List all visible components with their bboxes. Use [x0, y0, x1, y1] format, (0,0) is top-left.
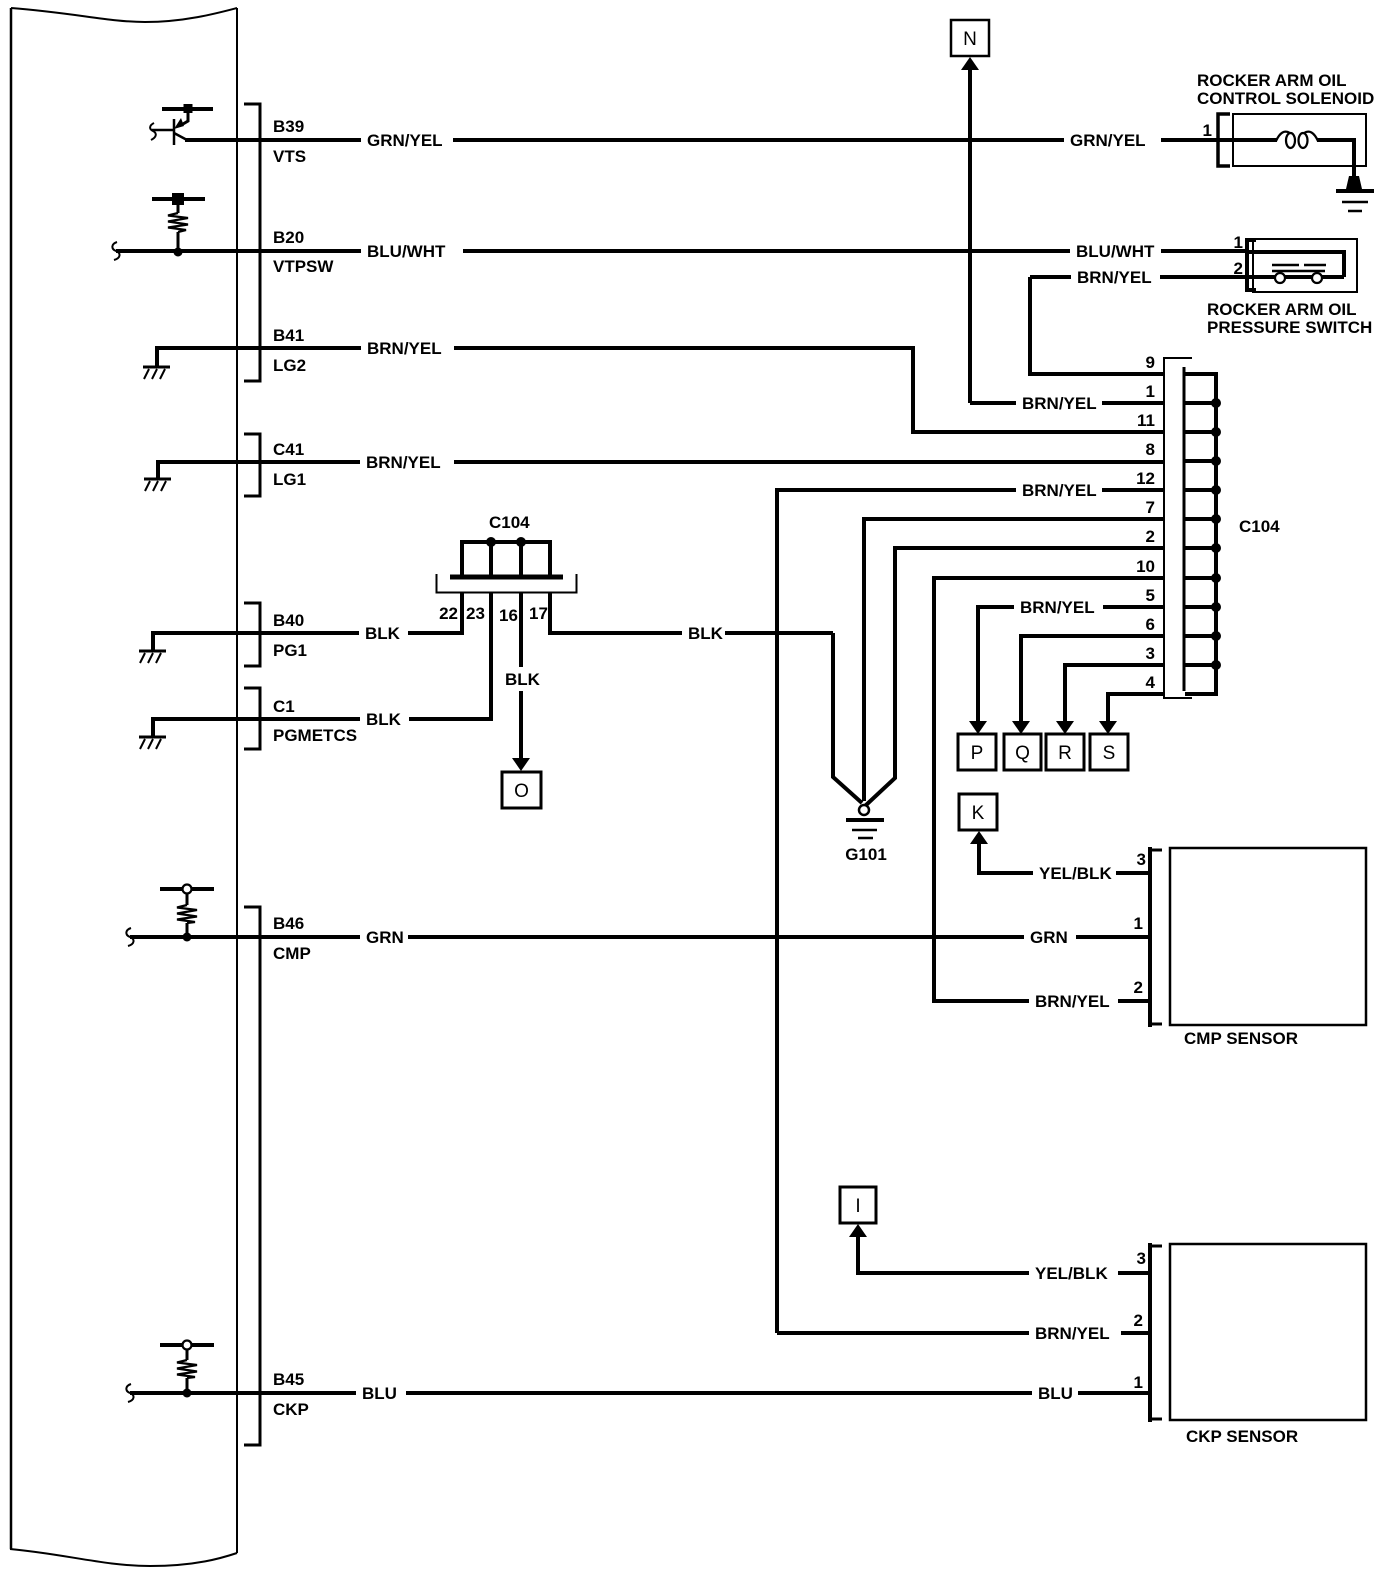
svg-text:1: 1	[1134, 914, 1143, 933]
resistor R bottom lead	[186, 923, 189, 937]
pin 3 right stub	[1185, 663, 1218, 667]
pin 11 right stub	[1185, 430, 1218, 434]
wire from C104 pin 1 up to terminal N	[968, 68, 972, 403]
wire C104 pin 3 to terminal R	[1065, 665, 1164, 722]
svg-text:C104: C104	[1239, 517, 1280, 536]
pin 5 right stub	[1185, 605, 1218, 609]
svg-text:BRN/YEL: BRN/YEL	[1077, 268, 1152, 287]
resistor R (VTPSW pull-up) top rail	[152, 197, 205, 201]
connector bracket C1	[244, 688, 260, 749]
transistor Q collector square terminal	[184, 104, 193, 113]
svg-text:6: 6	[1146, 615, 1155, 634]
svg-text:12: 12	[1136, 469, 1155, 488]
rocker arm oil pressure switch connector bracket	[1247, 240, 1256, 290]
solenoid earth ground bar 3	[1348, 210, 1362, 213]
resistor R top lead	[186, 1350, 189, 1360]
wire B46 GRN to CMP sensor pin 1	[130, 935, 360, 939]
svg-text:BRN/YEL: BRN/YEL	[1020, 598, 1095, 617]
pressure switch actuator dashes	[1272, 264, 1299, 267]
wire C104 pin 23 upper stub	[489, 542, 493, 575]
terminal box N	[951, 20, 989, 56]
wire YEL/BLK from CKP pin 3 to terminal I	[858, 1235, 1029, 1273]
svg-text:1: 1	[1234, 233, 1243, 252]
wire-break squiggle B20	[112, 242, 119, 260]
resistor R bottom lead	[186, 1378, 189, 1393]
connector C104 left body shell	[437, 574, 577, 593]
wire C104 pin 9 from pressure switch pin 2	[1030, 277, 1164, 374]
ground symbol C41 bar	[144, 478, 171, 481]
svg-text:BLU/WHT: BLU/WHT	[367, 242, 446, 261]
resistor R (CMP pull-up) top rail	[160, 887, 182, 891]
terminal box P	[958, 734, 996, 770]
wire C104 pin 4 to terminal S	[1108, 694, 1164, 722]
pin 1 right stub	[1185, 401, 1218, 405]
svg-text:LG1: LG1	[273, 470, 306, 489]
pin 2 right stub	[1185, 546, 1218, 550]
ground G101 terminal circle	[859, 805, 869, 815]
pressure switch pin 2 internal wire	[1249, 275, 1344, 279]
svg-text:BRN/YEL: BRN/YEL	[1022, 481, 1097, 500]
pressure switch pin 1 internal wire	[1249, 252, 1344, 277]
svg-text:BLU: BLU	[362, 1384, 397, 1403]
connector bracket B39/B20/B41	[244, 104, 260, 381]
wire C104 pin 17 lower stub BLK to G101	[550, 593, 682, 633]
wire BLK from C104 pin17 down to G101	[833, 633, 862, 803]
wire C104 pin 23 lower stub to C1	[489, 593, 493, 719]
svg-text:BLK: BLK	[366, 710, 402, 729]
solenoid L1 internal wire left	[1233, 138, 1277, 142]
svg-text:10: 10	[1136, 557, 1155, 576]
arrowhead into terminal O	[512, 758, 530, 771]
svg-text:CONTROL SOLENOID: CONTROL SOLENOID	[1197, 89, 1374, 108]
svg-text:YEL/BLK: YEL/BLK	[1035, 1264, 1108, 1283]
svg-text:VTS: VTS	[273, 147, 306, 166]
solenoid ground contact blob	[1346, 176, 1362, 189]
svg-text:8: 8	[1146, 440, 1155, 459]
svg-text:GRN: GRN	[366, 928, 404, 947]
arrowhead into terminal N	[961, 57, 979, 70]
connector bracket C41	[244, 434, 260, 496]
junction dot B45/resistor	[183, 1389, 192, 1398]
ECM/PCM panel torn bottom edge	[10, 1549, 237, 1566]
svg-text:B41: B41	[273, 326, 304, 345]
wire B41 BRN/YEL to C104 pin 11	[454, 348, 1164, 432]
svg-text:BLK: BLK	[365, 624, 401, 643]
svg-text:GRN/YEL: GRN/YEL	[367, 131, 443, 150]
solenoid L1 coil	[1276, 132, 1290, 141]
arrowhead into terminal R	[1056, 721, 1074, 734]
transistor Q collector arrowhead	[174, 118, 184, 129]
resistor R (CKP pull-up) top rail	[160, 1343, 182, 1347]
svg-text:1: 1	[1134, 1373, 1143, 1392]
ECM/PCM panel torn top edge	[11, 8, 237, 22]
ground symbol C41 hatches	[145, 481, 166, 491]
svg-text:BRN/YEL: BRN/YEL	[367, 339, 442, 358]
connector C104 (right) body bar	[1183, 367, 1186, 691]
ground G101 bar 2	[852, 829, 877, 832]
resistor R zigzag body	[177, 1360, 197, 1378]
arrowhead into terminal K	[970, 831, 988, 844]
svg-text:7: 7	[1146, 498, 1155, 517]
svg-text:B40: B40	[273, 611, 304, 630]
wire C104 pin 6 to terminal Q	[1021, 636, 1164, 722]
pressure switch moving contact bar	[1272, 270, 1325, 273]
svg-text:BLK: BLK	[505, 670, 541, 689]
ground symbol B40 hatches	[140, 653, 161, 663]
svg-text:I: I	[855, 1196, 860, 1217]
svg-text:PGMETCS: PGMETCS	[273, 726, 357, 745]
resistor R top lead	[177, 205, 180, 213]
wire C104 pin 16 upper stub	[519, 542, 523, 575]
pin 7 right stub	[1185, 517, 1218, 521]
terminal box S	[1090, 734, 1128, 770]
ground symbol C1 hatches	[140, 739, 161, 749]
ground at C1/PGMETCS	[153, 719, 360, 737]
svg-text:PG1: PG1	[273, 641, 307, 660]
svg-text:2: 2	[1146, 527, 1155, 546]
svg-text:ROCKER ARM OIL: ROCKER ARM OIL	[1207, 300, 1357, 319]
svg-text:B45: B45	[273, 1370, 304, 1389]
ground symbol B41 bar	[143, 366, 170, 369]
wire C41 BRN/YEL to C104 pin 8	[454, 460, 1164, 464]
wire C104 pin 2 to G101	[865, 548, 1164, 806]
svg-text:B46: B46	[273, 914, 304, 933]
svg-text:B39: B39	[273, 117, 304, 136]
pin 9 right stub	[1185, 372, 1218, 376]
transistor Q base lead	[152, 129, 174, 132]
svg-text:C104: C104	[489, 513, 530, 532]
pressure switch contact circles	[1275, 273, 1285, 283]
ground at B40/PG1	[153, 633, 359, 651]
wire-break squiggle B45	[126, 1384, 133, 1402]
wire C104 pin 12 BRN/YEL to CKP sensor pin 2	[1102, 488, 1164, 492]
arrowhead into terminal P	[969, 721, 987, 734]
transistor Q base wire-break squiggle	[150, 123, 156, 140]
ground symbol B40 bar	[139, 650, 166, 653]
svg-text:C1: C1	[273, 697, 295, 716]
wire C104 pin 1 BRN/YEL from terminal N	[970, 401, 1016, 405]
connector C104 (right) shell outline	[1164, 358, 1192, 698]
terminal box R	[1046, 734, 1084, 770]
svg-text:LG2: LG2	[273, 356, 306, 375]
svg-text:5: 5	[1146, 586, 1155, 605]
wire B45 BLU to CKP sensor pin 1	[130, 1391, 356, 1395]
svg-text:GRN/YEL: GRN/YEL	[1070, 131, 1146, 150]
solenoid earth ground bar 2	[1342, 201, 1368, 204]
connector bracket B46/B45	[244, 907, 260, 1445]
wire B40 BLK to C104 pin 22	[408, 631, 464, 635]
connector C104 right-side bus	[1214, 372, 1218, 696]
svg-text:BLK: BLK	[688, 624, 724, 643]
terminal box K	[959, 794, 997, 830]
svg-text:BRN/YEL: BRN/YEL	[1035, 992, 1110, 1011]
rocker arm oil pressure switch box	[1253, 239, 1357, 292]
pressure switch wire BRN/YEL pin 2	[1160, 275, 1249, 279]
svg-text:22: 22	[439, 604, 458, 623]
pin 10 right stub	[1185, 576, 1218, 580]
CKP sensor connector bracket	[1148, 1243, 1152, 1422]
svg-text:N: N	[963, 29, 977, 50]
svg-text:4: 4	[1146, 673, 1156, 692]
terminal box I	[840, 1187, 876, 1223]
resistor R circle terminal	[183, 1341, 192, 1350]
CMP sensor connector bracket	[1148, 847, 1152, 1027]
svg-text:3: 3	[1146, 644, 1155, 663]
transistor Q emitter lead	[174, 133, 188, 141]
svg-text:17: 17	[529, 604, 548, 623]
wire C104 pin 22 upper stub	[460, 540, 464, 575]
svg-text:BRN/YEL: BRN/YEL	[1035, 1324, 1110, 1343]
svg-text:CMP SENSOR: CMP SENSOR	[1184, 1029, 1298, 1048]
pin 4 right stub	[1185, 692, 1218, 696]
connector C104 left body bar	[450, 575, 563, 580]
svg-text:11: 11	[1137, 411, 1155, 430]
svg-text:9: 9	[1146, 353, 1155, 372]
svg-text:BLU/WHT: BLU/WHT	[1076, 242, 1155, 261]
ECM/PCM panel right edge	[236, 8, 238, 1553]
wire C104 pin 16 lower stub BLK to terminal O	[519, 593, 523, 667]
junction dot pin 23 bus	[486, 537, 496, 547]
resistor R square terminal	[172, 193, 184, 205]
wire C1 BLK to C104 pin 23	[409, 717, 493, 721]
CKP sensor box	[1170, 1244, 1366, 1420]
resistor R top lead	[186, 894, 189, 905]
ground symbol C1 bar	[139, 736, 166, 739]
resistor R bottom lead	[177, 232, 180, 252]
wire C104 pin 17 upper stub	[548, 540, 552, 575]
wire-break squiggle B46	[126, 928, 133, 946]
wire B20 BLU/WHT from break to pressure switch	[116, 249, 361, 253]
svg-text:R: R	[1058, 743, 1072, 764]
arrowhead into terminal Q	[1012, 721, 1030, 734]
svg-text:YEL/BLK: YEL/BLK	[1039, 864, 1112, 883]
svg-text:3: 3	[1137, 850, 1146, 869]
svg-text:G101: G101	[845, 845, 887, 864]
svg-text:Q: Q	[1015, 743, 1030, 764]
ground symbol B41 hatches	[144, 369, 165, 379]
transistor Q collector lead	[183, 113, 188, 124]
resistor R zigzag body	[168, 213, 188, 232]
ground G101 bar 3	[858, 837, 873, 840]
svg-text:16: 16	[499, 606, 518, 625]
terminal box O	[502, 772, 541, 808]
svg-text:B20: B20	[273, 228, 304, 247]
wire B39 GRN/YEL from transistor to solenoid	[185, 138, 361, 142]
solenoid earth ground bar 1	[1336, 189, 1374, 193]
wire C104 pin 22 lower stub to B40	[460, 593, 464, 633]
rocker arm oil control solenoid connector bracket	[1218, 114, 1230, 166]
terminal box Q	[1004, 734, 1041, 770]
junction dot B20/resistor	[174, 248, 183, 257]
pin 12 right stub	[1185, 488, 1218, 492]
svg-text:PRESSURE SWITCH: PRESSURE SWITCH	[1207, 318, 1372, 337]
wire YEL/BLK from CMP pin 3 to terminal K	[979, 842, 1033, 873]
svg-text:BLU: BLU	[1038, 1384, 1073, 1403]
svg-text:GRN: GRN	[1030, 928, 1068, 947]
resistor R zigzag body	[177, 905, 197, 923]
svg-text:ROCKER ARM OIL: ROCKER ARM OIL	[1197, 71, 1347, 90]
svg-text:O: O	[514, 781, 529, 802]
svg-text:3: 3	[1137, 1249, 1146, 1268]
rocker arm oil control solenoid box	[1233, 114, 1366, 166]
junction dot B46/resistor	[183, 933, 192, 942]
svg-text:23: 23	[466, 604, 485, 623]
wire C104 pin 7 to G101	[864, 519, 1164, 801]
svg-text:P: P	[971, 743, 984, 764]
solenoid L1 internal wire right and down to ground	[1317, 140, 1354, 178]
svg-text:BRN/YEL: BRN/YEL	[366, 453, 441, 472]
wire C104 pin 5 BRN/YEL to terminal P	[1103, 605, 1164, 609]
transistor Q base bar	[173, 119, 176, 145]
wire BRN/YEL CKP pin 2 (from C104 pin 12 vertical)	[777, 1331, 1029, 1335]
svg-text:CKP SENSOR: CKP SENSOR	[1186, 1427, 1298, 1446]
transistor Q (VTS driver) collector rail	[162, 107, 213, 111]
svg-text:BRN/YEL: BRN/YEL	[1022, 394, 1097, 413]
node bus above C104	[460, 540, 552, 544]
ground G101 bar 1	[846, 818, 884, 822]
svg-text:1: 1	[1203, 121, 1212, 140]
CMP sensor box	[1170, 848, 1366, 1025]
svg-text:C41: C41	[273, 440, 304, 459]
arrowhead into terminal S	[1099, 721, 1117, 734]
junction dots on C104 bus	[1211, 398, 1221, 408]
svg-text:2: 2	[1134, 1311, 1143, 1330]
ground at B41/LG2	[157, 348, 361, 367]
connector bracket B40	[244, 603, 260, 666]
ECM/PCM panel left edge	[10, 8, 13, 1549]
svg-text:CKP: CKP	[273, 1400, 309, 1419]
svg-text:1: 1	[1146, 382, 1155, 401]
pin 6 right stub	[1185, 634, 1218, 638]
svg-text:K: K	[972, 803, 985, 824]
junction dot pin 16 bus	[516, 537, 526, 547]
resistor R circle terminal	[183, 885, 192, 894]
svg-text:VTPSW: VTPSW	[273, 257, 334, 276]
ground at C41/LG1	[158, 462, 360, 479]
svg-text:S: S	[1103, 743, 1116, 764]
wire C104 pin 10 to CMP sensor pin 2	[934, 578, 1164, 1001]
pin 8 right stub	[1185, 459, 1218, 463]
svg-text:CMP: CMP	[273, 944, 311, 963]
arrowhead into terminal I	[849, 1224, 867, 1237]
svg-text:2: 2	[1134, 978, 1143, 997]
